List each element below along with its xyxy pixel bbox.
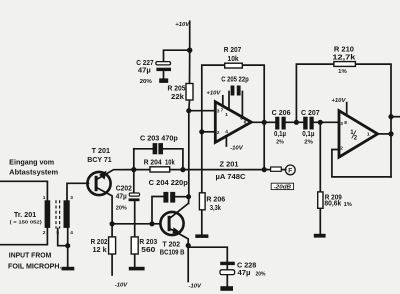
wire emitter node to -10V: [187, 246, 189, 282]
resistor R202: [109, 237, 116, 254]
transformer core dashed lines: [56, 200, 60, 228]
resistor R207: [225, 63, 243, 68]
wire R203 to ground: [134, 254, 136, 267]
svg-text:C 206: C 206: [272, 110, 291, 117]
resistor R205: [186, 84, 193, 101]
svg-text:6: 6: [244, 120, 247, 126]
wire R206 top: [201, 132, 203, 193]
svg-text:20%: 20%: [256, 271, 266, 277]
wire C204 right leg: [175, 196, 188, 198]
svg-text:22k: 22k: [171, 94, 184, 101]
wire box to F: [281, 169, 285, 171]
svg-text:12,7k: 12,7k: [332, 54, 355, 61]
wire R210 right leg: [355, 64, 391, 177]
svg-text:1: 1: [367, 131, 370, 137]
svg-text:2: 2: [43, 230, 46, 236]
wire feedback line: [183, 169, 264, 171]
transformer Tr201 primary winding: [45, 200, 51, 228]
wire shield tap pin5: [58, 229, 68, 246]
wire output line: [251, 121, 275, 123]
svg-text:12 k: 12 k: [93, 247, 107, 254]
wire emitter node down to C202: [133, 149, 135, 193]
svg-text:µA 748C: µA 748C: [216, 172, 247, 181]
wire R205 bottom: [188, 100, 191, 111]
wire C202 to R203: [134, 201, 136, 237]
wire op1 pin8: [241, 92, 243, 119]
wire input bottom: [0, 228, 47, 245]
svg-text:10k: 10k: [228, 56, 239, 63]
wire R209 top: [319, 122, 321, 192]
wire +10V rail: [189, 21, 191, 50]
wire +10V to C227: [164, 50, 190, 61]
svg-text:C 205 22p: C 205 22p: [221, 76, 249, 83]
wire C204 left leg: [152, 197, 163, 224]
resistor R203: [131, 237, 138, 254]
wire R207 left: [202, 65, 225, 132]
transistor T201: [87, 171, 110, 195]
svg-text:Tr. 201: Tr. 201: [14, 212, 36, 219]
wire op1 pin7: [222, 96, 224, 107]
capacitor C228: [220, 262, 235, 275]
wire T202 collector diagonal: [169, 203, 188, 218]
svg-text:3,3k: 3,3k: [210, 205, 221, 212]
svg-text:+10V: +10V: [331, 98, 346, 104]
wire R207 right: [242, 65, 264, 122]
test point F: [285, 165, 295, 175]
wire R209 to ground: [319, 208, 321, 234]
capacitor C205: [231, 86, 241, 96]
svg-text:R 205: R 205: [168, 86, 186, 93]
svg-text:FOIL MICROPH.: FOIL MICROPH.: [8, 263, 62, 270]
svg-text:T 202: T 202: [163, 241, 181, 248]
svg-text:R 203: R 203: [139, 239, 157, 246]
wire C228 to ground: [226, 265, 228, 286]
wire R210 left leg: [296, 64, 334, 122]
wire to test point: [264, 169, 270, 171]
svg-text:80,6k: 80,6k: [324, 201, 341, 208]
wire op2 pin8: [346, 103, 348, 116]
svg-text:BC109 B: BC109 B: [160, 249, 185, 256]
svg-text:+10V: +10V: [206, 91, 221, 97]
capacitor C207: [303, 117, 314, 130]
wire node to R204 left: [134, 169, 150, 171]
wire C227 to ground: [163, 71, 165, 78]
svg-text:1%: 1%: [344, 202, 353, 208]
wire pin3 vertical: [188, 111, 190, 204]
resistor R206: [199, 193, 205, 210]
svg-text:3: 3: [340, 121, 343, 127]
wire op1 pin1: [228, 92, 230, 110]
capacitor C204: [163, 192, 175, 203]
wire secondary top to T201 base: [67, 183, 89, 200]
svg-text:10k: 10k: [165, 160, 175, 167]
wire emitter node to C228: [188, 247, 227, 262]
svg-text:20%: 20%: [140, 79, 152, 85]
svg-text:2: 2: [217, 130, 220, 136]
ground R209: [314, 234, 326, 238]
ground C228: [220, 286, 233, 291]
svg-text:T 201: T 201: [92, 148, 110, 155]
wire C206 right to C207 left: [286, 121, 304, 123]
wire R202 to -10V: [111, 254, 113, 275]
svg-text:2%: 2%: [304, 140, 313, 146]
svg-text:2%: 2%: [276, 140, 284, 146]
ground R206: [195, 234, 208, 238]
svg-text:C 207: C 207: [301, 110, 320, 117]
svg-text:-20dB: -20dB: [274, 184, 292, 190]
wire C203 right leg: [163, 149, 183, 170]
svg-text:0,1µ: 0,1µ: [302, 131, 314, 138]
wire C203 left leg: [134, 148, 153, 150]
svg-text:1: 1: [43, 195, 46, 201]
svg-text:20%: 20%: [116, 206, 127, 212]
wire C207 right to op2 pin3: [314, 121, 339, 123]
svg-text:-10V: -10V: [189, 283, 203, 289]
svg-text:C202: C202: [116, 185, 132, 192]
svg-text:3: 3: [70, 195, 73, 201]
transistor T202: [160, 212, 183, 235]
svg-text:4: 4: [225, 129, 228, 135]
svg-text:( = 150 052): ( = 150 052): [10, 219, 42, 225]
wire T201 emitter to node: [97, 170, 134, 180]
svg-text:47µ: 47µ: [238, 270, 251, 277]
svg-text:R 204: R 204: [144, 160, 162, 167]
svg-text:8: 8: [344, 120, 347, 126]
capacitor C227: [156, 62, 171, 72]
transformer Tr201 secondary winding: [64, 200, 70, 228]
wire output to edge: [391, 116, 400, 118]
svg-text:5: 5: [56, 230, 59, 236]
capacitor C202: [129, 193, 140, 201]
wire pin3 line: [189, 110, 216, 112]
resistor R204: [150, 167, 170, 172]
wire output node down to feedback: [263, 122, 265, 169]
resistor R210: [334, 62, 356, 67]
svg-text:1: 1: [225, 112, 228, 118]
wire R206 to ground: [201, 210, 203, 235]
wire T201 collector down: [97, 188, 112, 237]
svg-text:47µ: 47µ: [116, 194, 127, 201]
svg-text:3: 3: [217, 108, 220, 114]
ground R203: [129, 267, 145, 271]
capacitor C203: [153, 143, 163, 154]
svg-text:R 202: R 202: [91, 239, 108, 246]
svg-text:4: 4: [70, 230, 73, 236]
svg-text:-10V: -10V: [230, 146, 244, 152]
svg-text:R 210: R 210: [334, 46, 354, 53]
wire op1 pin4: [225, 136, 227, 146]
svg-text:7: 7: [221, 108, 224, 114]
ground C227: [159, 78, 168, 83]
label -20dB box: [271, 183, 293, 189]
wire T202 base line: [112, 223, 161, 225]
resistor R209: [318, 192, 323, 208]
svg-text:R 206: R 206: [206, 197, 225, 204]
wire pin2 line: [202, 131, 216, 133]
svg-text:C 203 470p: C 203 470p: [140, 135, 178, 142]
svg-text:560: 560: [141, 247, 155, 254]
wire R205 top: [189, 50, 191, 83]
svg-text:47µ: 47µ: [138, 68, 151, 75]
svg-text:Z 201: Z 201: [220, 162, 239, 169]
wire input top: [0, 181, 47, 200]
wire T202 emitter diagonal: [169, 228, 188, 245]
svg-text:2: 2: [340, 145, 343, 151]
wire R204 right to node: [170, 169, 183, 171]
op-amp U1 Z201: [215, 102, 251, 143]
capacitor C206: [275, 117, 286, 130]
wire secondary bottom: [67, 228, 69, 267]
svg-text:+10V: +10V: [175, 22, 190, 28]
svg-text:-10V: -10V: [115, 283, 129, 289]
svg-text:1%: 1%: [338, 69, 347, 75]
test point box: [271, 167, 282, 171]
svg-text:INPUT FROM: INPUT FROM: [9, 253, 52, 260]
svg-text:Abtastsystem: Abtastsystem: [9, 170, 58, 177]
svg-text:C 227: C 227: [136, 60, 153, 67]
svg-text:Eingang vom: Eingang vom: [9, 159, 54, 166]
svg-text:R 207: R 207: [224, 47, 242, 54]
svg-text:C 204 220p: C 204 220p: [149, 180, 188, 187]
wire op2 pin2 feedback loop: [332, 150, 391, 177]
svg-text:0,1µ: 0,1µ: [274, 131, 286, 138]
svg-text:F: F: [288, 167, 292, 174]
svg-text:BCY 71: BCY 71: [87, 157, 112, 164]
op-amp U2: [339, 111, 378, 157]
ground transformer: [62, 267, 75, 271]
svg-text:C 228: C 228: [237, 262, 256, 269]
wire op2 output: [378, 133, 391, 135]
